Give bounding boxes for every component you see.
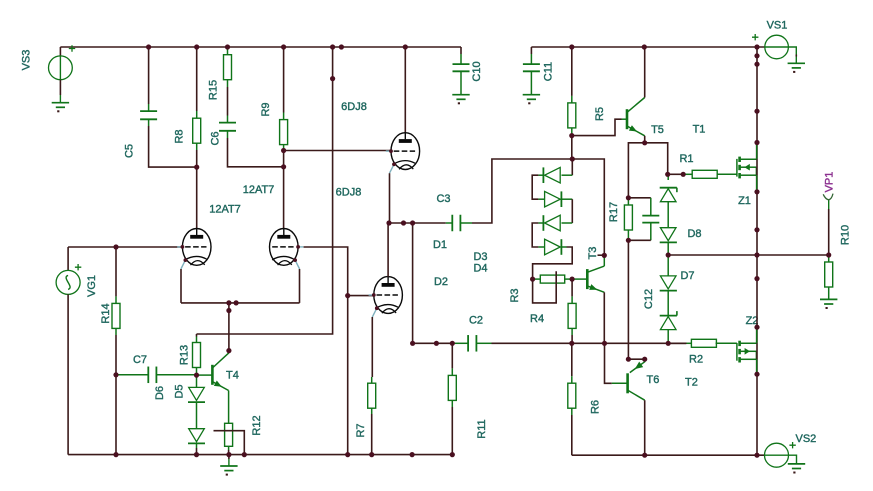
- svg-text:R11: R11: [476, 419, 488, 438]
- svg-text:D8: D8: [687, 228, 701, 240]
- svg-text:C3: C3: [436, 193, 450, 205]
- svg-text:12AT7: 12AT7: [243, 184, 275, 196]
- svg-text:T1: T1: [693, 124, 706, 136]
- svg-text:R5: R5: [594, 107, 606, 121]
- svg-text:C5: C5: [123, 144, 135, 158]
- svg-text:R17: R17: [608, 202, 620, 222]
- svg-text:R8: R8: [173, 129, 185, 143]
- svg-text:T6: T6: [647, 374, 660, 386]
- svg-text:R9: R9: [260, 102, 272, 116]
- svg-text:D3: D3: [473, 251, 487, 263]
- svg-text:C7: C7: [133, 354, 147, 366]
- svg-text:VS1: VS1: [767, 20, 788, 32]
- svg-text:D1: D1: [433, 239, 447, 251]
- svg-text:6DJ8: 6DJ8: [336, 187, 362, 199]
- svg-text:R13: R13: [178, 345, 190, 365]
- svg-text:D5: D5: [173, 384, 185, 398]
- svg-text:C12: C12: [643, 289, 655, 309]
- svg-text:T3: T3: [587, 247, 599, 260]
- svg-text:R2: R2: [689, 354, 703, 366]
- svg-text:C11: C11: [542, 62, 554, 81]
- svg-text:R10: R10: [839, 225, 851, 245]
- svg-text:12AT7: 12AT7: [209, 204, 241, 216]
- svg-text:R14: R14: [100, 303, 112, 323]
- svg-text:R12: R12: [251, 415, 263, 435]
- svg-text:C2: C2: [469, 315, 483, 327]
- svg-text:D6: D6: [154, 386, 166, 400]
- svg-text:C6: C6: [209, 131, 221, 145]
- svg-text:R15: R15: [207, 80, 219, 100]
- svg-text:VS3: VS3: [20, 50, 32, 71]
- svg-text:C10: C10: [471, 61, 483, 81]
- svg-text:D7: D7: [680, 270, 694, 282]
- svg-text:T5: T5: [651, 124, 664, 136]
- svg-text:R3: R3: [509, 288, 521, 302]
- svg-text:R1: R1: [679, 153, 693, 165]
- svg-text:R7: R7: [355, 423, 367, 437]
- svg-text:6DJ8: 6DJ8: [341, 101, 367, 113]
- svg-text:VS2: VS2: [796, 433, 817, 445]
- svg-text:T4: T4: [226, 370, 239, 382]
- svg-text:R6: R6: [589, 400, 601, 414]
- svg-text:T2: T2: [685, 377, 698, 389]
- svg-text:R4: R4: [530, 313, 544, 325]
- svg-text:D4: D4: [473, 263, 487, 275]
- svg-text:Z1: Z1: [738, 195, 751, 207]
- svg-text:VG1: VG1: [86, 275, 98, 297]
- svg-text:D2: D2: [434, 276, 448, 288]
- svg-text:VP1: VP1: [823, 172, 835, 193]
